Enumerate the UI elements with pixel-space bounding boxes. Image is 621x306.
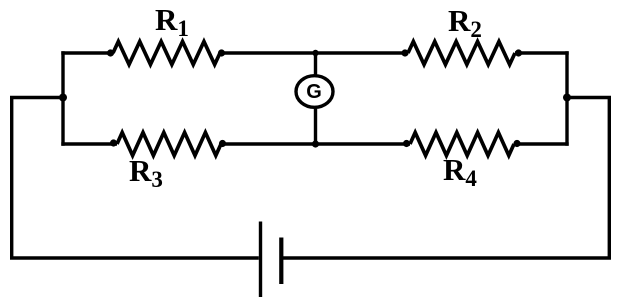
wire bottom rail right segment [514,142,569,145]
node dot R1 right [218,49,225,56]
wire bottom rail left segment [61,142,117,145]
node dot R4 left [403,140,410,147]
battery short plate [279,238,283,285]
node dot R3 left [110,139,117,146]
resistor R4 [410,133,514,156]
label G [304,82,324,102]
node dot R4 right [513,140,520,147]
resistor R3 [117,133,221,156]
node dot top junction [312,50,318,56]
node dot right terminal [563,94,571,102]
label R4 [443,154,477,185]
label R1 [155,4,189,35]
wire inner-right vertical [565,51,568,145]
wire top rail left segment [61,51,113,54]
resistor R1 [113,42,220,65]
galvanometer G [296,76,333,108]
wire galvanometer bottom lead [314,107,317,144]
node dot R3 right [219,140,226,147]
wire left outer loop [12,98,259,259]
battery long plate [259,222,262,298]
node dot left terminal [59,94,67,102]
label R2 [448,5,482,36]
wire inner-left vertical [61,51,64,145]
wire top rail right segment [515,51,569,54]
node dot R2 left [401,49,408,56]
wire right outer loop [283,98,610,259]
node dot R1 left [107,49,114,56]
label R3 [129,155,163,186]
wire galvanometer top lead [314,53,317,76]
node dot bottom junction [312,140,319,147]
wire top rail middle segment [220,51,408,54]
node dot R2 right [515,49,522,56]
resistor R2 [408,42,515,65]
wire bottom rail middle segment [221,142,410,145]
